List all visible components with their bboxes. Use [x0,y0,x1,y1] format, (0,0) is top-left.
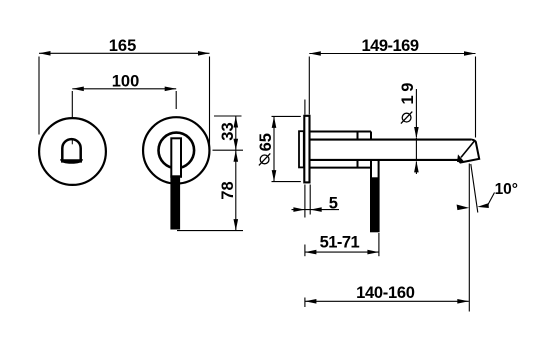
angle 10deg vertical reference [468,164,470,312]
svg-text:165: 165 [109,37,137,55]
dim 5 [292,100,340,218]
spout axis centerline inside arch [71,138,73,144]
svg-text:10°: 10° [495,181,518,198]
angle 10deg left arrow [457,205,470,211]
dim 149-169 arrows [309,51,321,56]
spout front arch [62,139,80,162]
dim 33 arrows [234,116,239,128]
right escutcheon circle [143,117,209,183]
svg-text:51-71: 51-71 [320,234,360,252]
wall plate [304,116,309,183]
dim 165 line [39,53,210,150]
handle lever side (black part) [371,177,380,231]
left escutcheon circle [39,118,106,185]
spout tip crease line [461,141,475,158]
dim 140-160 [305,298,469,308]
spout tube top edge [310,139,472,141]
dim diameter65 [272,116,301,181]
svg-text:78: 78 [219,181,237,199]
spout front outlet (black base) [60,159,83,164]
handle inner circle [159,133,195,169]
svg-text:65: 65 [257,133,275,151]
dim 149-169 line [309,54,475,138]
spout tip aerator (black wedge) [458,156,464,162]
svg-text:100: 100 [112,72,140,90]
dim 33/78 ticks [177,116,243,231]
angle 10deg right arrow and leader [477,203,489,208]
svg-text:33: 33 [219,122,237,140]
svg-text:149-169: 149-169 [361,37,418,55]
handle lever front (black part) [170,175,180,229]
svg-text:140-160: 140-160 [356,284,415,302]
in-wall stub [299,131,304,167]
handle lever side (white part) [371,160,379,231]
dim 100 arrows [72,87,84,92]
dim 78 arrows [234,150,239,162]
barrel step ring [357,132,359,140]
spout tube bottom edge [310,159,460,161]
spout tip angled cut outline [458,140,479,163]
svg-text:5: 5 [329,194,338,212]
dim 100 line [72,89,176,145]
svg-text:19: 19 [399,79,417,104]
mixer barrel [310,132,372,168]
dim diameter19 leader [415,89,417,174]
handle lever front (white part) [171,138,181,177]
dim 51-71 [305,233,379,256]
dim 165 arrows [39,51,51,56]
angle 10deg slant line [471,164,478,213]
